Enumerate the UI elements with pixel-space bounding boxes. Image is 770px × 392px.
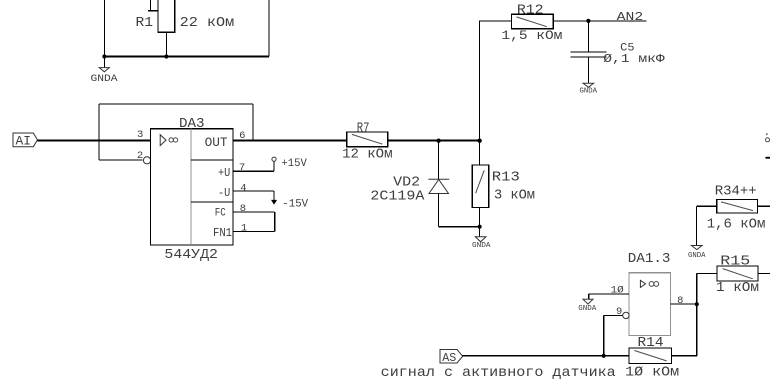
svg-text:1Ø кОм: 1Ø кОм — [625, 365, 679, 381]
svg-text:R1: R1 — [136, 15, 154, 31]
svg-text:1: 1 — [241, 223, 247, 235]
svg-text:+15V: +15V — [281, 158, 307, 170]
svg-text:R12: R12 — [517, 2, 544, 18]
ground GNDA under R13 — [472, 227, 491, 251]
junction R1-bottom — [164, 54, 168, 58]
wire R34 right — [758, 205, 770, 207]
DA3 internal divider — [190, 129, 192, 246]
svg-text:GNDA: GNDA — [472, 242, 491, 250]
wire top-left vertical — [103, 0, 105, 57]
DA1.3 amp triangle — [640, 280, 645, 287]
svg-text:9: 9 — [616, 306, 622, 318]
+15V terminal circle — [272, 157, 276, 161]
ground GNDA under C5 — [580, 83, 598, 95]
wire DA3 out to R7 — [233, 140, 347, 142]
svg-text:GNDA: GNDA — [91, 73, 119, 85]
pin2 inversion bubble — [143, 157, 150, 164]
wire feedback left vertical — [98, 104, 100, 160]
svg-text:1Ø: 1Ø — [611, 285, 624, 297]
svg-text:R14: R14 — [638, 335, 664, 351]
svg-text:R7: R7 — [357, 121, 370, 137]
junction R13 bottom — [478, 225, 482, 229]
wire R34 left to ground — [696, 206, 716, 245]
junction pin8 — [695, 302, 699, 306]
DA3 row divider 1 — [191, 159, 233, 161]
wire node up to R12 — [480, 21, 512, 140]
junction VD2 — [436, 139, 440, 143]
svg-text:R34++: R34++ — [715, 184, 757, 200]
svg-text:AN2: AN2 — [617, 10, 644, 24]
wire R15 right — [758, 273, 770, 275]
wire feedback top — [99, 103, 253, 105]
svg-text:Ø,1 мкФ: Ø,1 мкФ — [603, 52, 665, 66]
svg-text:2С119А: 2С119А — [370, 189, 425, 205]
junction C5 — [586, 19, 590, 23]
op-amp DA3 body — [151, 129, 234, 245]
-15V arrow — [271, 200, 277, 205]
junction AS node — [602, 354, 606, 358]
svg-text:R13: R13 — [492, 169, 520, 185]
svg-text:8: 8 — [240, 203, 246, 215]
wire VD2 bottom to R13 bottom — [439, 226, 480, 228]
port AI — [13, 133, 38, 149]
svg-text:GNDA: GNDA — [580, 88, 598, 96]
svg-text:8: 8 — [677, 295, 683, 307]
resistor R34 — [717, 200, 758, 214]
wire output vertical — [672, 274, 697, 356]
wire pin9 — [604, 315, 623, 355]
resistor R15 — [717, 266, 758, 281]
R1 tap arrow stub — [148, 0, 158, 11]
junction R13 — [477, 139, 481, 143]
wire pin2 — [99, 159, 143, 161]
svg-text:R15: R15 — [720, 254, 750, 270]
svg-text:-U: -U — [218, 186, 230, 200]
wire pin8 out — [670, 303, 696, 305]
svg-text:AS: AS — [442, 351, 456, 365]
svg-text:4: 4 — [240, 182, 246, 194]
diode VD2 — [428, 140, 449, 227]
wire AI to pin3 — [38, 140, 152, 142]
wire R12 to AN2 — [553, 20, 647, 22]
DA3 row divider 2 — [191, 201, 233, 203]
ground GNDA under R34 — [688, 246, 706, 261]
resistor R14 — [629, 348, 672, 364]
text fragment right edge 1 — [766, 138, 770, 142]
wire pin4 to -15V — [233, 191, 274, 200]
svg-text:-15V: -15V — [282, 198, 308, 210]
text fragment right edge 0 — [766, 133, 768, 135]
wire R1 bottom lead — [165, 32, 167, 56]
wire top-right vertical — [268, 0, 270, 57]
capacitor C5 — [570, 21, 606, 83]
svg-text:3 кОм: 3 кОм — [494, 188, 535, 204]
svg-text:FC: FC — [215, 208, 226, 220]
wire pin7 to +15V — [233, 161, 274, 171]
svg-text:GNDA: GNDA — [578, 305, 596, 313]
svg-text:AI: AI — [16, 134, 32, 149]
resistor R1 — [158, 0, 175, 32]
wire pin1 — [233, 231, 275, 233]
wire R7 to node — [388, 140, 480, 142]
DA1.3 infinity symbol — [649, 282, 659, 287]
svg-text:DA3: DA3 — [179, 116, 205, 132]
wire pin8 — [233, 211, 275, 213]
wire feedback right vertical — [252, 104, 254, 140]
DA3 amp triangle — [160, 135, 166, 146]
wire AS to R14 — [463, 355, 629, 357]
ground GNDA at pin10 — [578, 299, 596, 313]
wire pin10 to ground — [589, 294, 629, 299]
DA3 infinity symbol — [169, 138, 178, 142]
text fragment right edge 2 — [766, 157, 770, 159]
op-amp DA1.3 body — [629, 273, 670, 336]
svg-text:1,5 кОм: 1,5 кОм — [501, 28, 562, 43]
wire R15 left — [696, 273, 717, 275]
svg-text:1,6 кОм: 1,6 кОм — [707, 217, 766, 233]
svg-text:OUT: OUT — [205, 135, 228, 150]
wire top horizontal — [104, 56, 269, 58]
svg-text:DA1.3: DA1.3 — [628, 251, 671, 267]
port AS — [440, 350, 463, 365]
svg-text:сигнал с активного датчика: сигнал с активного датчика — [381, 365, 616, 381]
svg-text:1 кОм: 1 кОм — [716, 280, 759, 296]
svg-text:2: 2 — [137, 150, 143, 162]
resistor R7 — [347, 132, 388, 147]
resistor R13 — [472, 140, 488, 227]
svg-text:GNDA: GNDA — [688, 252, 706, 260]
ground GNDA top-left — [91, 57, 119, 86]
junction top-left — [102, 54, 106, 58]
svg-text:22 кОм: 22 кОм — [180, 15, 235, 31]
resistor R12 — [512, 14, 554, 28]
svg-text:FN1: FN1 — [213, 226, 232, 240]
svg-text:12 кОм: 12 кОм — [342, 146, 392, 162]
wire FC-FN1 bracket — [274, 212, 276, 231]
pin9 inversion bubble — [623, 312, 629, 318]
svg-text:3: 3 — [137, 129, 143, 141]
svg-text:7: 7 — [239, 162, 245, 174]
svg-text:+U: +U — [218, 166, 230, 180]
svg-text:544УД2: 544УД2 — [164, 247, 218, 263]
